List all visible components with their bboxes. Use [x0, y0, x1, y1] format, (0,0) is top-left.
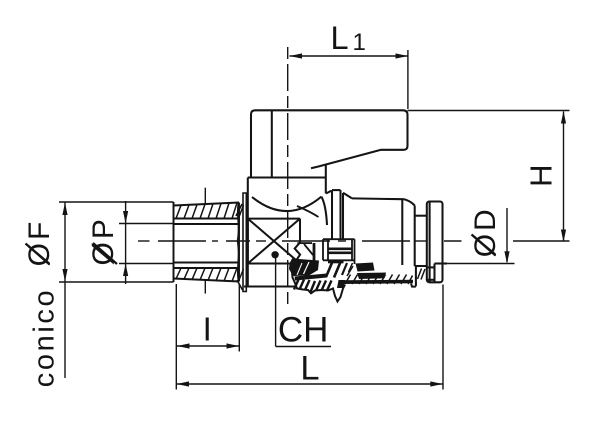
svg-text:I: I — [203, 311, 212, 348]
svg-text:ØF: ØF — [23, 219, 56, 267]
svg-text:ØP: ØP — [87, 216, 120, 265]
svg-text:L: L — [300, 350, 319, 388]
svg-text:conico: conico — [28, 288, 60, 387]
svg-text:L: L — [331, 20, 349, 56]
svg-text:CH: CH — [278, 310, 329, 349]
svg-text:1: 1 — [353, 29, 366, 56]
svg-text:H: H — [524, 165, 559, 187]
svg-text:ØD: ØD — [469, 206, 502, 257]
